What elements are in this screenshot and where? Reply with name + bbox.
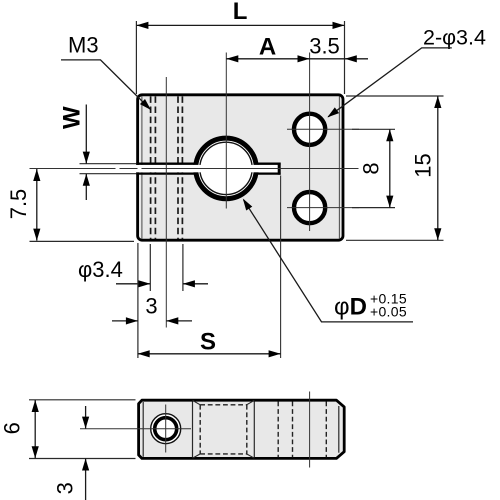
chamfer line right end (bottom view) xyxy=(338,406,340,453)
mounting hole bottom right xyxy=(294,192,325,223)
label 2-phi3.4 with leader xyxy=(325,26,486,121)
mounting hole top right xyxy=(294,114,325,145)
centerline horizontal tapped hole (bottom view) xyxy=(80,428,191,430)
dimension 3 (main view) xyxy=(112,243,192,358)
shaft hole chamfer circle xyxy=(200,142,252,194)
svg-text:W: W xyxy=(59,106,86,129)
shaft hole projection solid edges (bottom view) xyxy=(192,402,194,458)
svg-text:A: A xyxy=(259,34,276,61)
centerline horizontal top mounting hole xyxy=(287,128,359,130)
bottom view body xyxy=(139,400,345,458)
shaft hole outer ring (main view) xyxy=(196,138,257,199)
centerline horizontal bottom mounting hole xyxy=(287,207,359,209)
dimension W xyxy=(59,105,137,201)
svg-text:L: L xyxy=(233,0,248,25)
svg-text:15: 15 xyxy=(411,153,436,177)
svg-text:φD: φD xyxy=(334,294,367,321)
centerline vertical mounting holes xyxy=(309,53,311,232)
chamfer diagonals shaft hole (bottom view) xyxy=(193,400,255,458)
dimension S xyxy=(138,176,281,359)
dimension 8 xyxy=(352,129,395,207)
M3 tapped hole outer circle (bottom view) xyxy=(151,414,181,444)
dimension 6 xyxy=(0,400,136,459)
svg-text:7.5: 7.5 xyxy=(6,189,31,220)
svg-text:3: 3 xyxy=(53,482,78,494)
svg-text:3: 3 xyxy=(145,294,157,319)
main view body xyxy=(138,95,343,240)
svg-text:3.5: 3.5 xyxy=(309,34,340,59)
dimension 3.5 xyxy=(309,34,368,63)
svg-text:8: 8 xyxy=(359,162,384,174)
hidden dashed shaft hole box (bottom view) xyxy=(200,405,247,454)
hidden dashed mounting holes (bottom view) xyxy=(292,402,294,458)
centerline vertical cross hole xyxy=(165,77,167,328)
dimension L xyxy=(136,0,344,94)
hidden dashed lines M3 / phi3.4 cross hole (main view) xyxy=(151,96,183,239)
svg-text:+0.05: +0.05 xyxy=(370,303,407,319)
chamfer line left end (bottom view) xyxy=(142,402,144,457)
slit end cap xyxy=(278,163,281,175)
slit bottom line xyxy=(136,172,280,174)
slit white gap xyxy=(134,165,281,172)
dimension 3 (bottom view) xyxy=(53,406,90,500)
svg-text:φ3.4: φ3.4 xyxy=(78,257,123,282)
dimension 7.5 xyxy=(6,169,134,241)
centerline vertical shaft hole xyxy=(225,53,227,209)
svg-text:S: S xyxy=(200,328,216,355)
label phi3.4 with dimension (cross hole) xyxy=(78,244,208,291)
chamfer line left edge (main view) xyxy=(141,97,143,239)
M3 tapped hole inner circle (bottom view) xyxy=(155,418,177,440)
dimension A xyxy=(226,34,309,63)
chamfer line right edge (main view) xyxy=(338,97,340,239)
centerline horizontal shaft hole xyxy=(30,168,359,170)
slit top line xyxy=(136,163,280,165)
centerline vertical tapped hole (bottom view) xyxy=(165,405,167,453)
label M3 with leader xyxy=(61,33,154,113)
svg-text:2-φ3.4: 2-φ3.4 xyxy=(423,26,486,50)
dimension 15 xyxy=(346,96,444,240)
hidden dashed slit end (bottom view) xyxy=(277,402,279,458)
svg-text:6: 6 xyxy=(0,422,25,434)
label phiD with tolerance and leader xyxy=(240,197,413,322)
mounting hole centerline projection (bottom view) xyxy=(309,392,311,468)
svg-text:M3: M3 xyxy=(68,33,99,58)
